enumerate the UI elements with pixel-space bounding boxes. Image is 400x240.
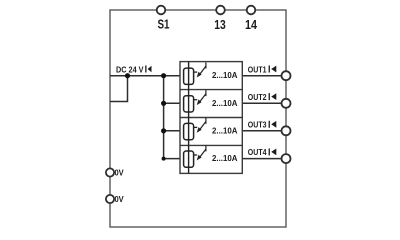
svg-text:2...10A: 2...10A (212, 126, 238, 136)
svg-text:OUT2: OUT2 (248, 92, 267, 102)
svg-text:OUT1: OUT1 (248, 64, 267, 74)
svg-text:OUT4: OUT4 (248, 147, 267, 157)
svg-text:S1: S1 (158, 17, 170, 32)
svg-text:2...10A: 2...10A (212, 153, 238, 163)
svg-text:DC 24 V: DC 24 V (116, 64, 144, 74)
svg-text:0V: 0V (115, 168, 125, 177)
svg-text:14: 14 (245, 17, 258, 32)
svg-text:2...10A: 2...10A (212, 98, 238, 108)
svg-text:OUT3: OUT3 (248, 120, 267, 130)
svg-text:2...10A: 2...10A (212, 70, 238, 80)
svg-text:0V: 0V (115, 195, 125, 204)
svg-text:13: 13 (214, 17, 226, 32)
